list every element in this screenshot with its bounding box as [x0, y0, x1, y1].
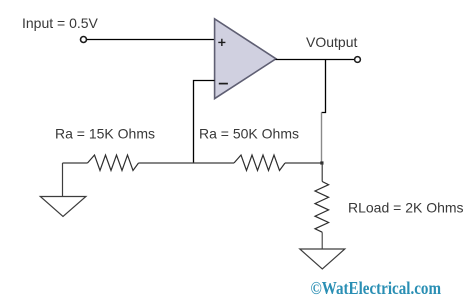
node junction dot [320, 161, 323, 164]
wire bottom rail right segment [285, 162, 322, 164]
resistor Ra 50K zigzag [234, 155, 285, 171]
wire output [276, 59, 355, 61]
svg-text:RLoad = 2K Ohms: RLoad = 2K Ohms [348, 200, 464, 216]
wire feedback from inverting input [194, 81, 215, 164]
node input terminal [81, 37, 87, 43]
svg-text:©WatElectrical.com: ©WatElectrical.com [311, 278, 442, 298]
op-amp U1 [215, 19, 276, 99]
ground GND2 [300, 249, 345, 269]
resistor RLoad zigzag [315, 182, 329, 233]
wire left drop to ground [62, 163, 64, 197]
svg-text:Ra = 50K Ohms: Ra = 50K Ohms [199, 126, 299, 142]
wire bottom rail left segment [63, 162, 88, 164]
svg-text:Input = 0.5V: Input = 0.5V [22, 15, 99, 31]
node output terminal [355, 57, 361, 63]
wire branch lower gray segment to junction [321, 113, 323, 164]
wire input to op-amp [87, 39, 215, 41]
svg-text:Ra = 15K Ohms: Ra = 15K Ohms [55, 126, 155, 142]
ground GND1 [40, 197, 86, 217]
wire output branch down (black upper segment) [322, 60, 326, 113]
wire RLoad to ground [321, 232, 323, 249]
wire bottom rail middle segment [139, 162, 235, 164]
wire junction down to RLoad [321, 163, 323, 182]
svg-text:VOutput: VOutput [306, 34, 357, 50]
resistor Ra 15K zigzag [88, 155, 139, 171]
